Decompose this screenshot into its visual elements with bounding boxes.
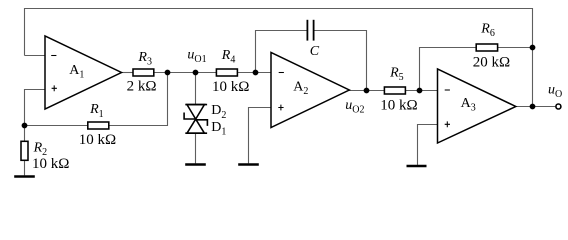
resistor R4 xyxy=(212,48,249,95)
op-amp A1 inverting pin mark xyxy=(51,55,56,57)
svg-text:10 kΩ: 10 kΩ xyxy=(79,132,116,148)
ground below A2 noninverting input xyxy=(238,163,259,165)
junction node R6 / top loop xyxy=(530,45,536,51)
op-amp A2 noninverting pin mark xyxy=(278,105,283,111)
resistor R4 body xyxy=(216,69,237,76)
wire R6 feedback branch around A3 xyxy=(420,48,533,91)
op-amp A2 xyxy=(271,53,349,128)
op-amp A2 inverting pin mark xyxy=(279,72,284,74)
junction node A2 inverting input / C xyxy=(253,70,259,76)
resistor R1 body xyxy=(88,122,109,129)
wire A3 noninverting input to ground xyxy=(418,125,439,165)
op-amp A1 xyxy=(45,36,122,109)
op-amp A3 triangle body xyxy=(438,69,516,143)
junction node A3 inverting input / R6 xyxy=(417,88,423,94)
wire A1 inverting input lead xyxy=(25,55,46,57)
wire R4 to A2 inverting input xyxy=(237,72,271,74)
zener shared cathode bar with hooks xyxy=(184,113,207,126)
junction node R3/R1 xyxy=(165,70,171,76)
wire A3 output to terminal uO xyxy=(515,106,555,108)
op-amp A1 triangle body xyxy=(45,36,122,109)
wire A1 output to R3 xyxy=(121,72,134,74)
resistor R6 xyxy=(473,22,510,71)
svg-text:20 kΩ: 20 kΩ xyxy=(473,54,510,70)
junction node R1/R2/A1 noninverting xyxy=(22,123,28,129)
wire A2 output to R5 (node uO2) xyxy=(348,90,384,92)
resistor R6 body xyxy=(476,44,497,51)
wire A1 noninverting input lead xyxy=(25,90,46,126)
resistor R5 body xyxy=(384,87,405,94)
op-amp A3 noninverting pin mark xyxy=(445,121,450,127)
zener D2 triangle xyxy=(187,105,204,120)
svg-text:10 kΩ: 10 kΩ xyxy=(212,79,249,95)
svg-text:10 kΩ: 10 kΩ xyxy=(380,98,417,114)
resistor R2 xyxy=(21,140,69,172)
svg-text:2 kΩ: 2 kΩ xyxy=(127,79,157,95)
wire R2 leads xyxy=(24,126,26,176)
zener D1 triangle xyxy=(187,119,204,133)
resistor R3 body xyxy=(133,69,154,76)
wire R5 to A3 inverting input xyxy=(405,90,438,92)
ground below A3 noninverting input xyxy=(407,165,427,167)
resistor R3 xyxy=(127,50,157,95)
svg-text:10 kΩ: 10 kΩ xyxy=(32,156,69,172)
capacitor C right plate xyxy=(313,20,315,41)
zener diode pair D2/D1 back to back xyxy=(184,105,207,134)
ground below R2 xyxy=(14,175,35,177)
capacitor C xyxy=(307,20,319,59)
wire capacitor feedback branch around A2 xyxy=(256,31,367,91)
svg-text:C: C xyxy=(310,44,320,59)
zener D1 anode bar xyxy=(185,132,207,134)
wire overall feedback loop (A3 output to A1 inverting input, top) xyxy=(25,9,533,107)
junction node uO2 A2 output / C xyxy=(364,88,370,94)
junction node uO1 zener tap xyxy=(193,70,199,76)
wire R3 to R4 through node uO1 xyxy=(154,72,217,74)
zener D2 anode bar xyxy=(185,104,207,106)
op-amp A1 noninverting pin mark xyxy=(52,85,57,91)
wire A2 noninverting input to ground xyxy=(249,108,272,164)
resistor R1 xyxy=(79,102,116,148)
capacitor C left plate xyxy=(306,20,308,41)
op-amp A2 triangle body xyxy=(271,53,349,128)
wire R1 feedback branch (node A to node B) xyxy=(25,73,168,126)
resistor R5 xyxy=(380,65,417,113)
op-amp A3 xyxy=(438,69,516,143)
op-amp A3 inverting pin mark xyxy=(445,89,450,91)
ground below zener pair xyxy=(185,163,206,165)
output terminal uO xyxy=(556,104,561,109)
wire zener branch from node uO1 to ground xyxy=(195,73,197,164)
junction node A3 output xyxy=(530,104,536,110)
resistor R2 body xyxy=(21,141,28,160)
